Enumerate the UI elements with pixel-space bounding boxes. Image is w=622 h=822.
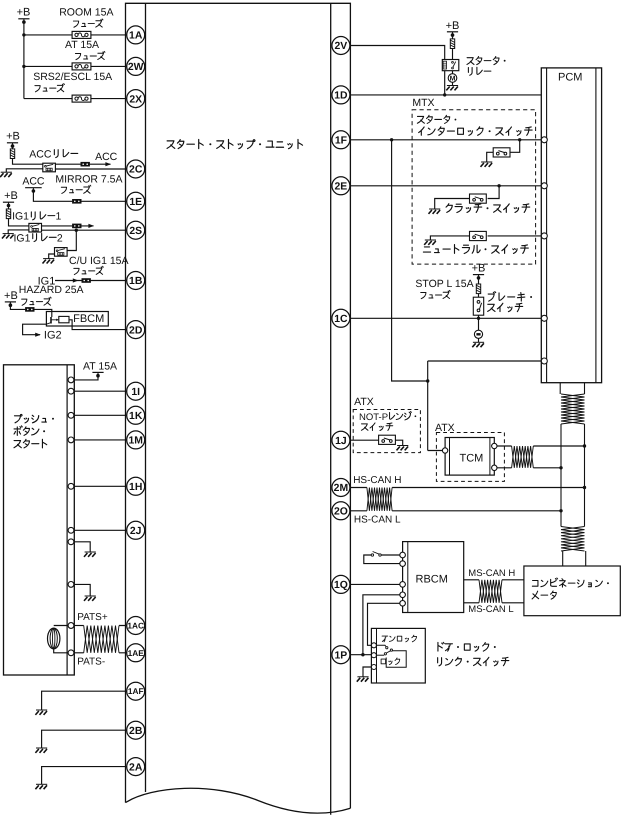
PATS antenna coil L1 (in push-button unit) (48, 628, 60, 649)
wire RBCM MS-CAN L (464, 602, 479, 604)
svg-text:PCM: PCM (558, 72, 582, 84)
wire FBCM emitter to IG2 (23, 324, 47, 335)
wire TCM CAN H to trunk (533, 445, 584, 447)
svg-text:IG1: IG1 (14, 232, 31, 244)
junction dot TCM CAN L / trunk (559, 466, 562, 469)
wire push-button to pin 1H (71, 485, 136, 487)
wire pin 1P to door lock switch (341, 654, 372, 656)
pin 1AF (start-stop unit) (127, 682, 145, 700)
wire +B vertical feed (23, 20, 25, 98)
label ロック (381, 659, 385, 664)
label スタータ・ (interlock) (417, 116, 424, 123)
wire ROOM fuse row to pin 1A (24, 34, 136, 36)
wire motor to ground (452, 82, 454, 85)
svg-text:1A: 1A (129, 31, 143, 42)
svg-text:1M: 1M (128, 436, 142, 447)
pin 1E (start-stop unit) (127, 192, 145, 210)
switch S3 neutral switch (ニュートラル・スイッチ) (470, 231, 487, 240)
label スイッチ (brake) (488, 304, 495, 311)
wire interlock switch to ground (487, 152, 494, 162)
svg-text:2W: 2W (128, 62, 144, 73)
svg-text:1B: 1B (129, 276, 143, 287)
pin 1J (start-stop unit) (332, 431, 350, 449)
wire pin 1Q to RBCM (341, 583, 403, 585)
label フューズ (C/U IG1) (74, 268, 79, 274)
svg-text:ACC: ACC (29, 148, 52, 160)
label クラッチ・スイッチ (446, 204, 452, 213)
wire TCM net to TCM pin (428, 450, 445, 452)
wire neutral switch to PCM (488, 235, 542, 237)
svg-text:PATS+: PATS+ (77, 612, 108, 623)
inline connector (HAZARD fuse row) (25, 307, 34, 312)
door lock link switch box (ドア・ロック・リンク・スイッチ) (371, 628, 425, 683)
twisted pair TCM CAN (512, 446, 534, 468)
wire IG1 to pin 1B (55, 280, 136, 282)
junction dot TCM CAN H / trunk (583, 444, 586, 447)
label ボタン・ (14, 426, 22, 436)
ATX dashed box (TCM) (436, 433, 504, 482)
wire pin 2O (HS-CAN L) (341, 510, 367, 512)
junction dot 1F / interlock switch (518, 138, 521, 141)
label フューズ (ROOM) (73, 21, 78, 27)
wire coil to PATS- (54, 649, 71, 653)
label スタータ・ (relay) (467, 58, 474, 65)
wire RBCM switch loop (364, 555, 403, 564)
ground (interlock switch) (481, 162, 493, 167)
ground (1AF) (35, 710, 47, 715)
wire +B HAZARD fuse to FBCM (10, 304, 51, 318)
wire pin 2V to starter relay coil (341, 46, 445, 60)
twisted pair HS-CAN (367, 488, 392, 511)
label プッシュ・ (14, 414, 22, 422)
svg-text:2S: 2S (129, 226, 142, 237)
ground (neutral switch) (424, 240, 436, 245)
junction dot brake switch / 1C (477, 317, 480, 320)
arrow IG1 relay-1 output (88, 224, 94, 228)
svg-text:TCM: TCM (460, 453, 484, 465)
start-stop unit connector box U1 (スタート・ストップ・ユニット) (126, 3, 351, 814)
wire push-button to pin 1K (71, 414, 136, 416)
wire IG1 relay-1 coil to ground (8, 230, 29, 234)
wire door lock switch to ground (363, 667, 377, 677)
svg-text:2D: 2D (129, 325, 143, 336)
junction dot 2E / clutch switch (497, 184, 500, 187)
TCM pins (right) (492, 443, 497, 448)
pin 1H (start-stop unit) (127, 477, 145, 495)
label ニュートラル・スイッチ (423, 247, 430, 252)
svg-text:1P: 1P (335, 650, 348, 661)
wire twisted pair to pin 1AC (119, 625, 136, 627)
wire PATS+ to twisted pair (71, 625, 84, 627)
label フューズ (HAZARD) (22, 299, 27, 305)
junction dot TCM net (426, 379, 429, 382)
wire 1C junction to stop lamp (478, 318, 480, 330)
door lock switch pins (371, 643, 376, 648)
svg-text:1AC: 1AC (127, 621, 144, 631)
inline connector (ACC output) (81, 162, 90, 167)
arrow IG1 feed (73, 278, 79, 282)
svg-text:1E: 1E (129, 197, 142, 208)
push-button start unit box (プッシュ・ボタン・スタート) (4, 365, 75, 675)
wire clutch switch to ground (435, 199, 470, 210)
wire brake switch to 1C wire (478, 315, 480, 318)
svg-text:1: 1 (56, 211, 62, 223)
label スタート・ストップ・ユニット (167, 141, 175, 149)
svg-text:MS-CAN H: MS-CAN H (468, 568, 515, 579)
junction dot (starter relay coil / 1D wire) (443, 93, 446, 96)
FBCM box (46, 312, 108, 327)
switch S5 NOT-P range switch (379, 435, 396, 444)
wire PATS+ to coil (54, 625, 71, 627)
label リンク・スイッチ (438, 658, 442, 666)
wire TCM H to twisted pair (494, 445, 511, 447)
wire clutch switch to 2E (488, 186, 500, 199)
ground (door lock switch) (357, 677, 369, 682)
wire stop lamp to ground (478, 338, 480, 342)
RBCM box (403, 542, 464, 613)
pin 1C (start-stop unit) (332, 309, 350, 327)
wire twisted pair to pin 1AE (119, 652, 136, 654)
ground (2B) (35, 748, 47, 753)
svg-text:1AE: 1AE (128, 648, 145, 658)
svg-text:HAZARD 25A: HAZARD 25A (19, 284, 84, 296)
pin 2J (start-stop unit) (127, 521, 145, 539)
wire RBCM MS-CAN H (464, 579, 479, 581)
wire IG1 relay-1 coil to pin 2S (42, 229, 136, 231)
wire PATS- to twisted pair (71, 652, 84, 654)
wire RBCM to 1P junction (363, 595, 403, 655)
wire +B fuse to ACC relay (13, 158, 43, 164)
wire pin 1J to NOT-P switch (341, 439, 379, 441)
svg-text:2C: 2C (129, 165, 143, 176)
wire push-button ground 1 (71, 542, 90, 552)
svg-text:1C: 1C (334, 314, 348, 325)
junction dot AT row (22, 65, 25, 68)
junction dot 1P / RBCM (361, 653, 364, 656)
wire FBCM output to pin 2D (69, 320, 136, 330)
pin 1M (start-stop unit) (127, 431, 145, 449)
label コンビネーション・ (532, 581, 538, 587)
pin 1F (start-stop unit) (332, 131, 350, 149)
junction dot ROOM row (22, 33, 25, 36)
wire AT fuse row to pin 2W (24, 65, 136, 67)
svg-text:IG2: IG2 (44, 329, 62, 341)
relay K2 IG1 relay-1 (29, 223, 42, 232)
door lock switch inner loop (lock side) (386, 651, 406, 668)
junction dot HS-CAN H / trunk (583, 486, 586, 489)
wire ACC source to pin 1E (33, 189, 135, 201)
pin 1B (start-stop unit) (127, 272, 145, 290)
relay K3 IG1 relay-2 (55, 248, 68, 257)
svg-text:1Q: 1Q (334, 580, 348, 591)
svg-text:2M: 2M (334, 483, 348, 494)
svg-text:2E: 2E (335, 182, 348, 193)
fuse SRS2/ESCL 15A (72, 95, 91, 102)
wire MS-CAN H to meter (502, 579, 524, 581)
stop lamp E1 (474, 330, 482, 338)
wire pin 1D to PCM (341, 94, 541, 96)
wire TCM CAN L to trunk (533, 467, 561, 469)
inline connector (IG1 relay-1 output) (72, 224, 81, 229)
ground (IG1 relay-1 coil) (2, 234, 14, 239)
switch S6 (RBCM input) (381, 554, 402, 556)
fuse (vertical, IG1 relay feed) (8, 204, 10, 210)
label メータ (532, 591, 539, 599)
twisted pair MS-CAN (479, 580, 502, 603)
svg-text:2O: 2O (334, 507, 348, 518)
PCM bottom connector stub (559, 383, 561, 394)
svg-text:MIRROR 7.5A: MIRROR 7.5A (55, 174, 122, 186)
relay K1 ACC relay (43, 163, 56, 172)
label リレー (relay) (468, 68, 472, 76)
switch S4 brake switch (ブレーキ・スイッチ) vertical (473, 297, 483, 315)
svg-text:+B: +B (4, 190, 18, 202)
pin 2M (start-stop unit) (332, 479, 350, 497)
wire pin 1C to PCM (341, 317, 541, 319)
svg-text:AT 15A: AT 15A (65, 39, 99, 51)
ground (2A) (35, 784, 47, 789)
pin 1Q (start-stop unit) (332, 575, 350, 593)
wire TCM net vertical (427, 361, 429, 451)
label アンロック (382, 636, 388, 642)
label インターロック・スイッチ (419, 127, 424, 135)
label スタート (14, 441, 21, 448)
pin 1K (start-stop unit) (127, 406, 145, 424)
pin 2S (start-stop unit) (127, 221, 145, 239)
svg-text:+B: +B (6, 131, 20, 143)
svg-text:+B: +B (17, 7, 31, 19)
wire ACC relay coil to ground (6, 169, 43, 172)
inline connector (MIRROR fuse row) (72, 199, 81, 204)
wire ACC relay switch output (to ACC) (55, 163, 110, 165)
wire push-button ground 2 (71, 584, 90, 596)
twisted pair CAN trunk (upper) (561, 394, 585, 424)
wire HS-CAN L to trunk (392, 510, 561, 512)
wire interlock switch to 1F (510, 140, 520, 153)
svg-text:STOP L 15A: STOP L 15A (415, 278, 473, 290)
resistor R1 (inside FBCM) (59, 316, 69, 322)
wire starter relay coil to 1D wire (444, 71, 446, 95)
svg-text:ATX: ATX (354, 396, 374, 408)
svg-text:IG1: IG1 (12, 211, 29, 223)
ground (NOT-P switch) (397, 446, 409, 451)
svg-text:1AF: 1AF (128, 686, 144, 696)
push-button connector pins (68, 377, 74, 383)
ground (stop lamp) (472, 342, 484, 347)
svg-text:2J: 2J (130, 526, 142, 537)
svg-text:AT 15A: AT 15A (83, 360, 117, 372)
svg-text:1D: 1D (334, 91, 348, 102)
wire +B fuse to IG1 relay 1 (9, 218, 29, 226)
svg-text:+B: +B (446, 20, 460, 32)
label フューズ (STOP L) (421, 292, 426, 298)
ground (ACC relay coil) (0, 172, 12, 177)
PCM box (541, 68, 601, 383)
wire pin 2E to PCM (341, 185, 541, 187)
label フューズ (MIRROR) (61, 187, 66, 193)
label ドア・ロック・ (438, 642, 444, 651)
label ブレーキ・ (488, 292, 496, 302)
wire pin 1AF to ground (42, 691, 136, 710)
wire AT 15A to push-button pin (71, 374, 98, 380)
ground (starter motor) (446, 86, 458, 91)
svg-text:M: M (450, 76, 456, 83)
pin 2W (start-stop unit) (127, 57, 145, 75)
pin 2X (start-stop unit) (127, 90, 145, 108)
svg-text:1K: 1K (129, 411, 143, 422)
pin 1D (start-stop unit) (332, 86, 350, 104)
svg-text:+B: +B (472, 262, 486, 274)
wire NOT-P switch to ground (395, 440, 402, 445)
relay K4 starter relay (スタータ・リレー) (442, 60, 459, 71)
pin 2E (start-stop unit) (332, 177, 350, 195)
svg-text:2X: 2X (129, 94, 142, 105)
pin 1AE (start-stop unit) (127, 644, 145, 662)
combination meter box (コンビネーション・メータ) (524, 566, 620, 616)
ground (IG1 relay-2 coil) (43, 259, 55, 264)
wire fuse to starter relay switch (452, 48, 454, 59)
wire MS-CAN L to meter (502, 602, 524, 604)
wire push-button to pin 1M (71, 439, 136, 441)
svg-text:MTX: MTX (412, 97, 434, 109)
TCM box (445, 438, 494, 476)
pin 1AC (start-stop unit) (127, 617, 145, 635)
svg-text:MS-CAN L: MS-CAN L (468, 604, 513, 615)
svg-text:1F: 1F (335, 136, 347, 147)
wire SRS fuse row to pin 2X (24, 98, 136, 100)
svg-text:2: 2 (57, 232, 63, 244)
wire push-button to pin 1I (71, 390, 136, 392)
wire pin 2A to ground (42, 767, 136, 785)
junction dot 2S wire / IG1 relay-2 (75, 229, 78, 232)
wire push-button to pin 2J (71, 529, 136, 531)
svg-text:ACC: ACC (22, 176, 45, 188)
pin 2B (start-stop unit) (127, 721, 145, 739)
wire ACC relay coil to pin 2C (55, 168, 135, 170)
wire pin 2M (HS-CAN H) (341, 487, 367, 489)
svg-text:1H: 1H (129, 482, 142, 493)
twisted pair PATS+ / PATS- (84, 626, 119, 653)
twisted pair CAN trunk (lower) (561, 527, 585, 552)
svg-text:C/U IG1 15A: C/U IG1 15A (69, 255, 129, 267)
fuse ROOM 15A (72, 31, 91, 38)
pin 1I (start-stop unit) (127, 382, 145, 400)
wire IG1 relay-1 switch output arrow (42, 225, 94, 227)
label フューズ (SRS2/ESCL) (35, 86, 40, 92)
ATX dashed box (NOT-P range switch) (353, 410, 420, 453)
junction dot HS-CAN L / trunk (559, 509, 562, 512)
label フューズ (AT) (75, 53, 80, 59)
wire starter relay switch to motor (452, 71, 454, 74)
wire pin 1F to PCM (341, 139, 541, 141)
label スイッチ (NOT-P) (361, 424, 368, 430)
PCM pins (left edge) (541, 137, 547, 143)
svg-text:2B: 2B (129, 726, 143, 737)
svg-text:ROOM 15A: ROOM 15A (59, 7, 113, 19)
wire neutral switch to ground (430, 236, 469, 240)
wire IG1 relay-2 coil to ground (49, 254, 55, 259)
svg-text:HS-CAN L: HS-CAN L (354, 515, 401, 526)
arrow IG2 (35, 333, 41, 337)
wire IG1 relay-2 to 2S junction (67, 230, 76, 250)
pin 2V (start-stop unit) (332, 37, 350, 55)
RBCM pins (400, 552, 406, 558)
wire 1F branch down to TCM net (392, 140, 428, 381)
pin 2C (start-stop unit) (127, 160, 145, 178)
pin 1P (start-stop unit) (332, 646, 350, 664)
combination meter connector stub (562, 551, 564, 566)
svg-text:1J: 1J (335, 436, 347, 447)
svg-text:2V: 2V (335, 41, 348, 52)
arrow ACC output (105, 162, 111, 166)
ground (clutch switch) (429, 209, 441, 214)
ground (push-button 2) (84, 596, 96, 601)
svg-text:FBCM: FBCM (73, 313, 104, 325)
wire pin 2B to ground (42, 730, 136, 748)
fuse (vertical, ACC relay feed) (12, 144, 14, 149)
svg-text:PATS-: PATS- (77, 657, 105, 668)
svg-text:2A: 2A (129, 762, 143, 773)
svg-text:NOT-P: NOT-P (359, 412, 388, 423)
inline connector (C/U IG1 fuse row) (82, 278, 91, 283)
svg-text:ACC: ACC (95, 151, 118, 163)
transistor Q1 (inside FBCM) (50, 317, 52, 324)
junction dot 1F / TCM branch (390, 138, 393, 141)
wire fuse to brake switch (478, 293, 480, 297)
pin 1A (start-stop unit) (127, 26, 145, 44)
pin 2D (start-stop unit) (127, 321, 145, 339)
door lock switch contacts S7 (377, 645, 386, 646)
fuse AT 15A (72, 63, 91, 70)
TCM pin (left) (442, 448, 447, 453)
starter motor M1 (448, 74, 457, 83)
wire HS-CAN H to trunk (392, 487, 584, 489)
MTX dashed box (412, 110, 535, 264)
ground (push-button 1) (84, 552, 96, 557)
switch S2 clutch switch (クラッチ・スイッチ) (470, 194, 487, 203)
fuse (vertical, starter relay feed) (452, 33, 454, 39)
wire RBCM to door lock switch (unlock) (368, 603, 403, 645)
svg-text:SRS2/ESCL 15A: SRS2/ESCL 15A (33, 71, 112, 83)
CAN trunk bus lines (560, 424, 562, 527)
switch S1 starter interlock switch (493, 148, 510, 157)
wire TCM L to twisted pair (494, 467, 511, 469)
svg-text:+B: +B (4, 290, 18, 302)
svg-text:RBCM: RBCM (416, 574, 448, 586)
pin 2A (start-stop unit) (127, 758, 145, 776)
svg-text:HS-CAN H: HS-CAN H (353, 475, 401, 486)
svg-text:1I: 1I (131, 387, 140, 398)
fuse (vertical, STOP L 15A) (478, 276, 480, 284)
pin 2O (start-stop unit) (332, 502, 350, 520)
wire TCM net to PCM (428, 360, 542, 362)
